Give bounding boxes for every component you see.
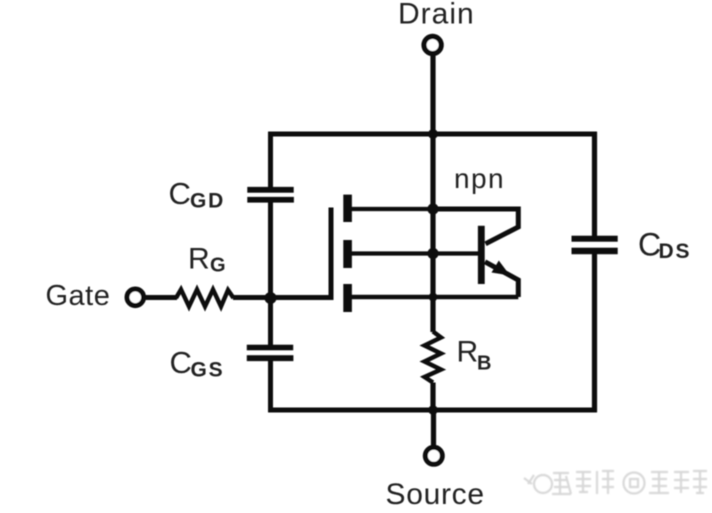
capacitor CDS — [572, 236, 618, 255]
junction dot node drain / top rail — [428, 129, 438, 139]
wire top rail — [268, 132, 597, 137]
label RG — [188, 243, 226, 277]
wire right rail lower (CDS to bottom rail) — [592, 254, 597, 413]
Q1 emitter arrowhead — [492, 261, 511, 276]
wire center rail (top rail to RB) — [430, 134, 435, 332]
wire source vertical (bottom rail to terminal) — [431, 410, 436, 447]
terminal Source — [425, 447, 442, 464]
wire left rail middle (CGD to CGS) — [268, 202, 273, 345]
capacitor CGD — [247, 187, 294, 203]
wire Q1 collector — [433, 209, 518, 244]
wire left rail upper (top rail to CGD) — [268, 132, 273, 188]
svg-text:DS: DS — [659, 240, 692, 263]
wire right rail upper (top rail to CDS) — [592, 132, 597, 237]
wire drain vertical (terminal to top rail) — [430, 54, 435, 135]
wire RB to bottom rail — [430, 383, 435, 413]
label RB — [457, 336, 492, 375]
MOSFET channel bar middle — [343, 240, 352, 268]
resistor RB — [425, 332, 442, 383]
junction dot node source / bottom rail — [428, 405, 438, 415]
svg-text:GS: GS — [191, 359, 225, 382]
wire gate lead (terminal to RG) — [144, 295, 178, 300]
wire gate node (RG to MOSFET gate) — [233, 208, 331, 298]
terminal Gate — [127, 289, 144, 306]
MOSFET channel bar top — [343, 195, 352, 222]
svg-text:Gate: Gate — [46, 280, 111, 312]
svg-text:C: C — [170, 345, 192, 380]
label CGD — [169, 176, 226, 213]
resistor RG — [176, 290, 234, 307]
MOSFET channel bar bottom — [343, 284, 352, 312]
wire MOSFET drain lead — [352, 207, 434, 211]
svg-text:GD: GD — [190, 190, 225, 213]
wire MOSFET body lead — [352, 251, 479, 255]
svg-text:R: R — [188, 243, 210, 276]
junction dot node G (gate / left rail) — [265, 292, 277, 304]
svg-text:npn: npn — [454, 163, 505, 194]
label CGS — [170, 345, 225, 382]
wire Q1 emitter — [485, 262, 518, 297]
svg-text:G: G — [210, 255, 226, 277]
capacitor CGS — [247, 345, 294, 361]
wire left rail lower (CGS to bottom rail) — [268, 361, 273, 413]
svg-text:C: C — [169, 176, 191, 211]
terminal Drain — [424, 36, 441, 53]
watermark zhihu — [524, 471, 707, 494]
label CDS — [638, 227, 691, 264]
wire bottom rail — [268, 408, 597, 413]
svg-text:R: R — [457, 336, 479, 369]
svg-text:B: B — [477, 353, 491, 375]
wire MOSFET source lead — [352, 295, 519, 300]
junction dot node D (drain lead) — [427, 203, 438, 214]
transistor Q1 base bar — [478, 226, 485, 284]
svg-text:Drain: Drain — [398, 0, 475, 31]
junction dot node B (body lead) — [427, 248, 438, 259]
junction dot node S (source lead crossing) — [429, 293, 438, 302]
svg-text:Source: Source — [386, 478, 485, 511]
